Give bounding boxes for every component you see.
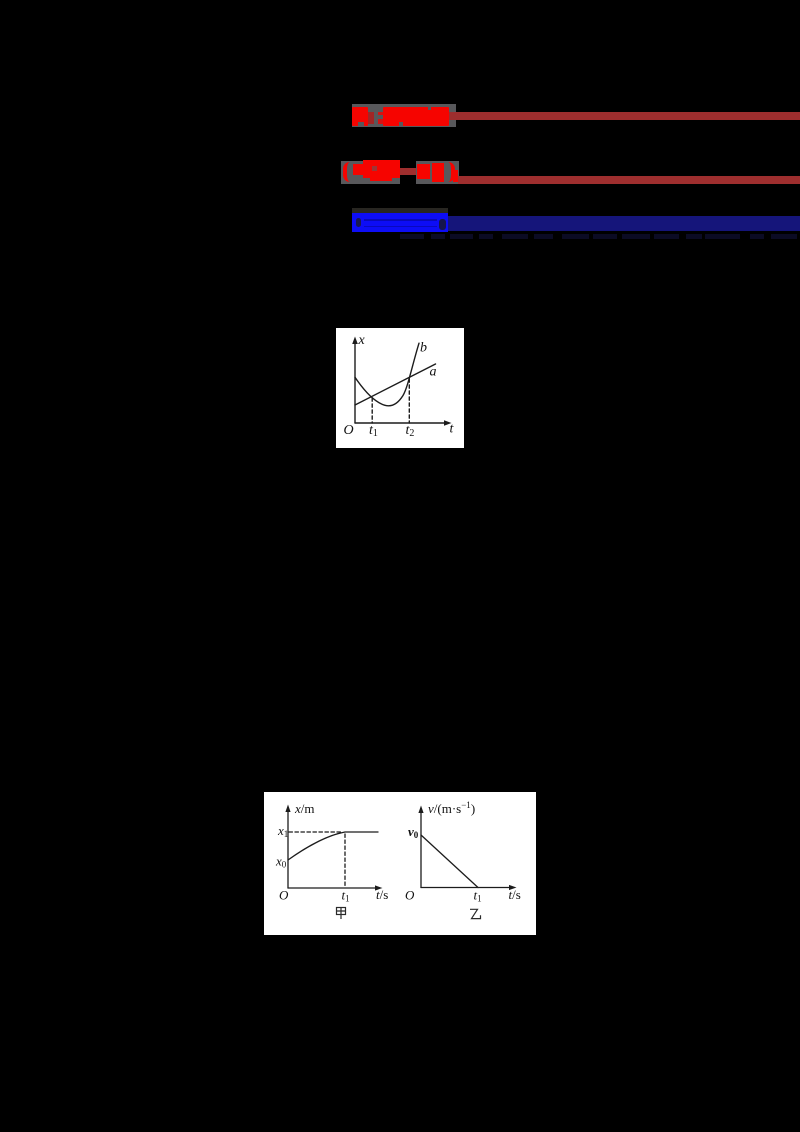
svg-text:x: x bbox=[358, 333, 366, 348]
long dark red line line2 bbox=[458, 176, 800, 184]
glyph yi (乙) bbox=[470, 909, 481, 918]
svg-text:b: b bbox=[420, 341, 427, 356]
red sub mark bbox=[453, 170, 458, 182]
right y arrowhead bbox=[418, 806, 423, 814]
svg-text:t: t bbox=[450, 422, 455, 437]
red equals blob bbox=[353, 164, 363, 175]
svg-text:O: O bbox=[344, 423, 354, 438]
left dashed horizontal bbox=[289, 831, 343, 833]
dashed t1 bbox=[371, 398, 373, 423]
line a bbox=[355, 364, 436, 405]
red glyph run line1 bbox=[383, 107, 449, 126]
left y arrowhead bbox=[285, 805, 290, 813]
left x axis bbox=[288, 887, 378, 889]
right x arrowhead bbox=[509, 885, 517, 890]
dashed t2 bbox=[408, 379, 410, 423]
left y axis bbox=[287, 809, 289, 888]
red glyph blob bbox=[432, 163, 445, 182]
navy band bbox=[448, 216, 800, 232]
curve b bbox=[355, 343, 419, 406]
svg-text:v0: v0 bbox=[408, 824, 419, 840]
svg-text:x1: x1 bbox=[277, 823, 288, 839]
gray patch B line2 bbox=[416, 161, 459, 184]
svg-text:v/(m·s−1): v/(m·s−1) bbox=[428, 800, 475, 816]
dark bracket right bbox=[439, 219, 446, 230]
right sloped line bbox=[421, 835, 478, 888]
red glyph tail bbox=[370, 177, 392, 181]
x axis bbox=[355, 422, 447, 424]
left dashed vertical bbox=[344, 834, 346, 888]
red paren ( bbox=[343, 162, 352, 182]
red nubs line1 bbox=[378, 112, 384, 115]
small dark red glyph line1 bbox=[368, 112, 374, 124]
dark red dash line2 bbox=[400, 168, 416, 175]
svg-text:x0: x0 bbox=[275, 854, 287, 870]
svg-text:x/m: x/m bbox=[294, 801, 315, 816]
svg-text:t1: t1 bbox=[369, 423, 378, 439]
y arrowhead bbox=[352, 337, 358, 345]
svg-text:a: a bbox=[430, 365, 437, 380]
glyph jia (甲) bbox=[337, 908, 346, 920]
red paren ) bbox=[446, 162, 455, 182]
right x axis bbox=[421, 887, 512, 889]
strikethrough line1 long bbox=[384, 112, 800, 120]
bright blue block bbox=[352, 213, 448, 232]
dark strip above blue bbox=[352, 208, 448, 213]
red glyph blob bbox=[417, 164, 430, 180]
ghost text row under line3 bbox=[400, 234, 424, 239]
svg-text:t2: t2 bbox=[406, 423, 415, 439]
red glyph blob 1 line1 bbox=[352, 107, 368, 126]
faint glyph streaks in blue bbox=[364, 219, 437, 221]
right y axis bbox=[420, 810, 422, 888]
gray highlight line1 bbox=[352, 104, 456, 127]
red glyph blob bbox=[363, 160, 400, 178]
x arrowhead bbox=[444, 420, 452, 426]
svg-text:t/s: t/s bbox=[509, 887, 521, 902]
svg-text:t1: t1 bbox=[342, 888, 350, 904]
svg-text:O: O bbox=[279, 888, 289, 903]
svg-text:O: O bbox=[405, 888, 415, 903]
gray patch A line2 bbox=[341, 161, 400, 184]
y axis bbox=[354, 341, 356, 423]
svg-text:t/s: t/s bbox=[376, 887, 388, 902]
left x arrowhead bbox=[375, 885, 383, 890]
left curve bbox=[288, 832, 378, 860]
svg-text:t1: t1 bbox=[474, 888, 482, 904]
dark bracket left bbox=[356, 218, 362, 227]
